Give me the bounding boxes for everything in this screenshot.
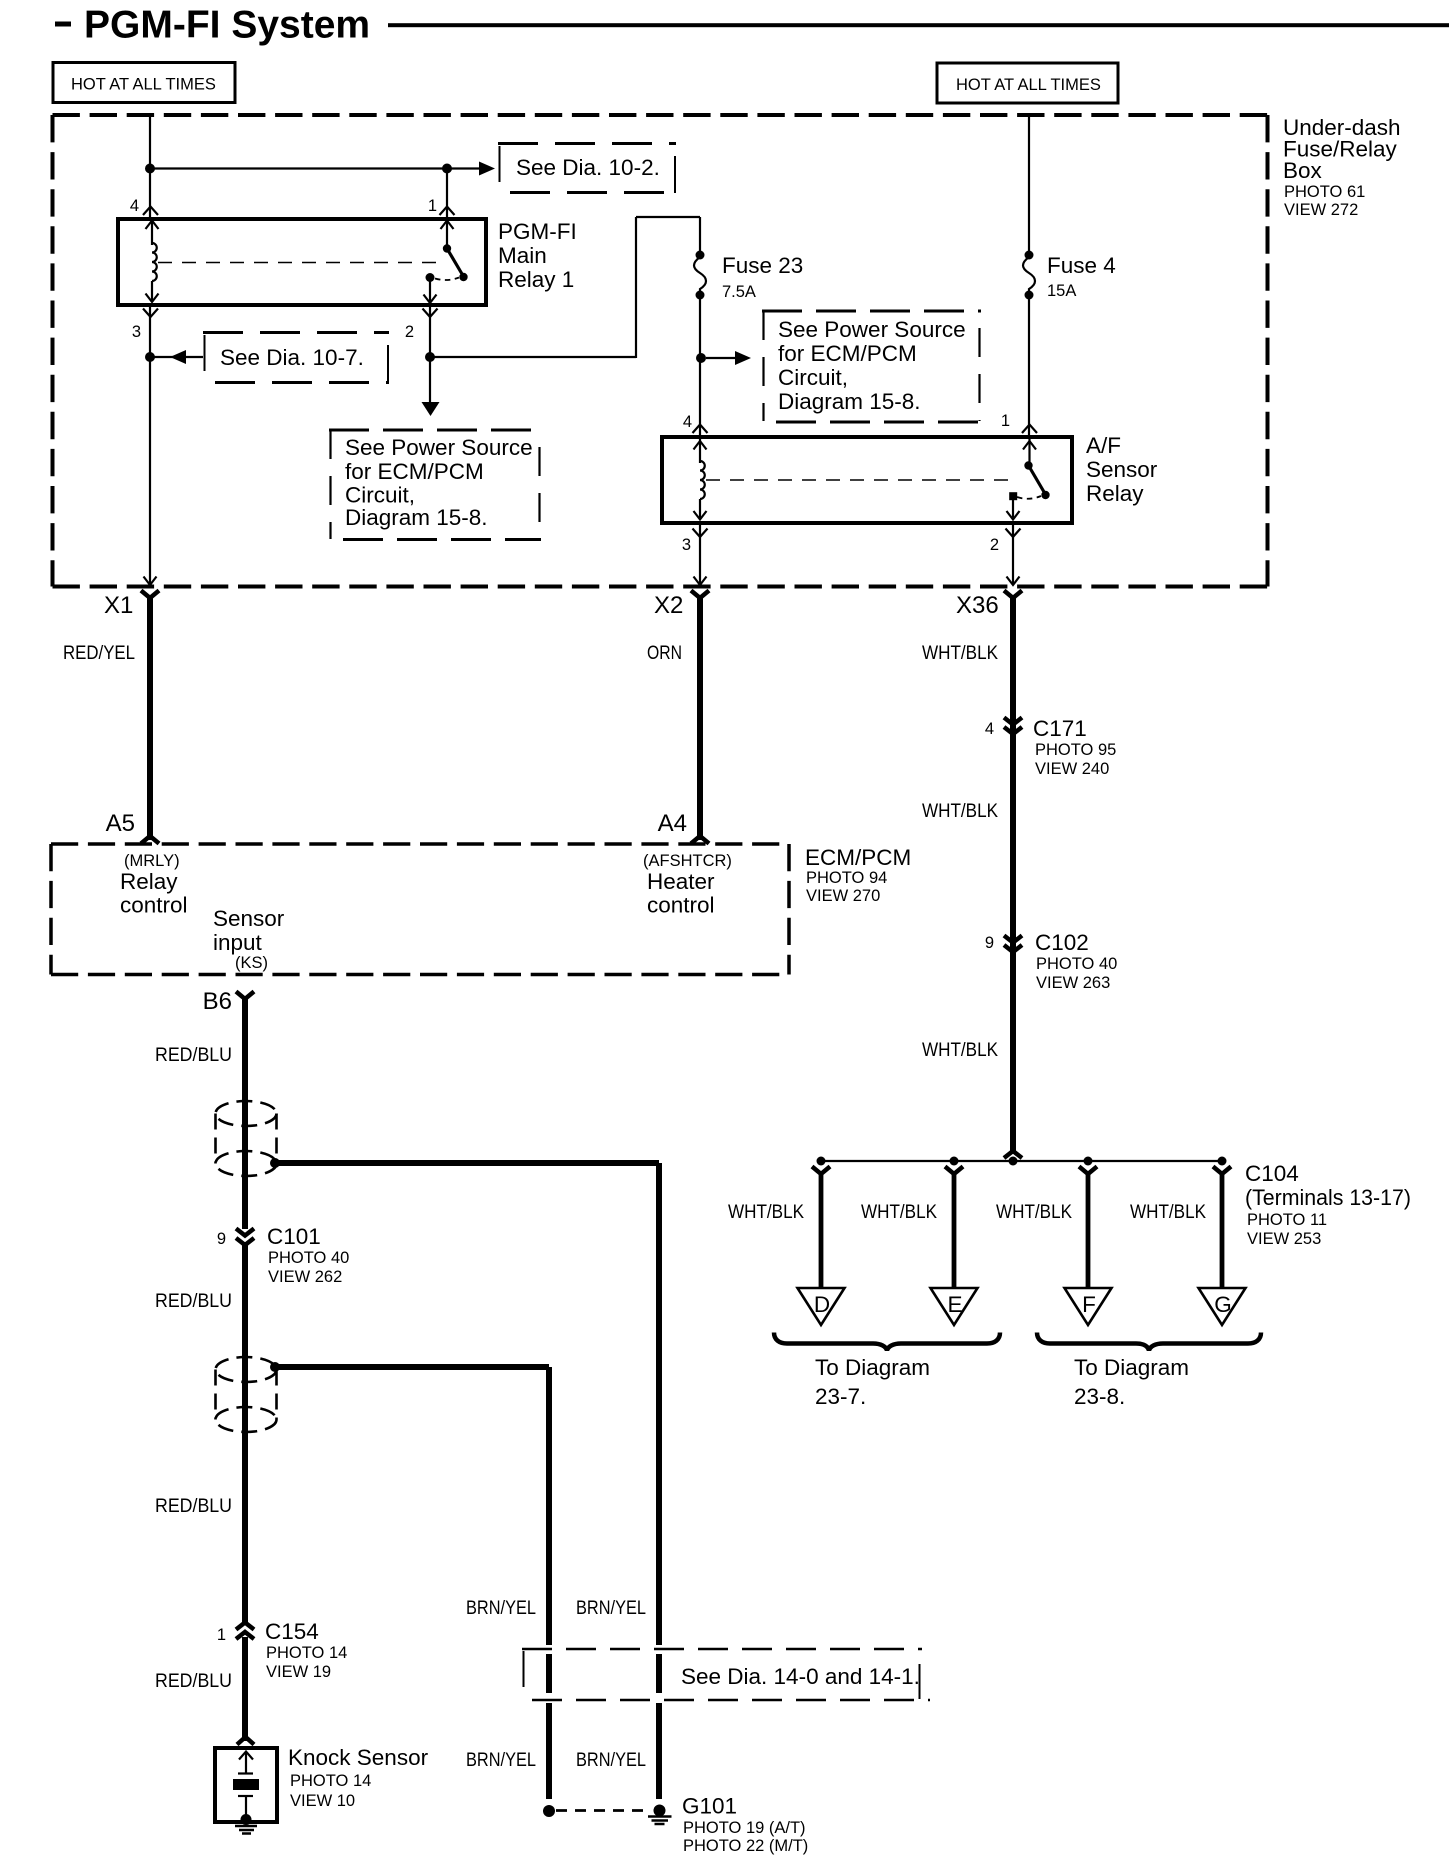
svg-text:C171: C171	[1033, 716, 1087, 741]
svg-text:RED/BLU: RED/BLU	[155, 1045, 232, 1066]
svg-text:(Terminals 13-17): (Terminals 13-17)	[1245, 1185, 1411, 1210]
svg-text:3: 3	[682, 536, 691, 554]
svg-text:VIEW 270: VIEW 270	[806, 887, 880, 905]
svg-text:2: 2	[405, 323, 414, 341]
svg-text:1: 1	[428, 197, 437, 215]
svg-text:PHOTO 94: PHOTO 94	[806, 869, 887, 887]
svg-text:Box: Box	[1283, 158, 1323, 183]
svg-text:HOT AT ALL TIMES: HOT AT ALL TIMES	[956, 76, 1101, 94]
svg-text:Knock Sensor: Knock Sensor	[288, 1745, 429, 1770]
svg-text:WHT/BLK: WHT/BLK	[861, 1202, 937, 1223]
svg-text:VIEW 253: VIEW 253	[1247, 1230, 1321, 1248]
svg-text:G: G	[1214, 1292, 1232, 1317]
svg-text:23-8.: 23-8.	[1074, 1384, 1125, 1409]
svg-text:C154: C154	[265, 1619, 319, 1644]
svg-text:Sensor: Sensor	[1086, 457, 1158, 482]
svg-text:Relay: Relay	[1086, 481, 1144, 506]
svg-text:PHOTO 40: PHOTO 40	[1036, 955, 1117, 973]
svg-text:(AFSHTCR): (AFSHTCR)	[643, 852, 732, 870]
svg-text:A5: A5	[106, 810, 135, 837]
svg-text:To Diagram: To Diagram	[815, 1355, 930, 1380]
svg-text:BRN/YEL: BRN/YEL	[576, 1598, 646, 1619]
svg-text:BRN/YEL: BRN/YEL	[466, 1750, 536, 1771]
svg-text:E: E	[947, 1292, 962, 1317]
svg-text:See Power Source: See Power Source	[345, 435, 533, 460]
svg-text:ORN: ORN	[647, 643, 682, 664]
svg-text:PHOTO 95: PHOTO 95	[1035, 741, 1116, 759]
svg-text:Heater: Heater	[647, 869, 715, 894]
svg-text:control: control	[647, 893, 715, 918]
svg-text:Circuit,: Circuit,	[345, 483, 415, 508]
svg-text:RED/BLU: RED/BLU	[155, 1496, 232, 1517]
svg-text:WHT/BLK: WHT/BLK	[996, 1202, 1072, 1223]
svg-text:BRN/YEL: BRN/YEL	[576, 1750, 646, 1771]
svg-text:WHT/BLK: WHT/BLK	[922, 801, 998, 822]
svg-text:WHT/BLK: WHT/BLK	[728, 1202, 804, 1223]
svg-text:WHT/BLK: WHT/BLK	[922, 643, 998, 664]
svg-text:7.5A: 7.5A	[722, 283, 756, 301]
svg-text:See Dia. 14-0 and 14-1.: See Dia. 14-0 and 14-1.	[681, 1664, 920, 1689]
svg-text:PHOTO 14: PHOTO 14	[266, 1644, 347, 1662]
svg-text:X36: X36	[956, 592, 999, 619]
svg-text:4: 4	[683, 413, 692, 431]
svg-text:See Dia. 10-7.: See Dia. 10-7.	[220, 345, 364, 370]
svg-text:PGM-FI: PGM-FI	[498, 219, 577, 244]
svg-text:input: input	[213, 930, 263, 955]
svg-text:Diagram 15-8.: Diagram 15-8.	[345, 505, 488, 530]
svg-text:Fuse 23: Fuse 23	[722, 253, 803, 278]
svg-text:See Dia. 10-2.: See Dia. 10-2.	[516, 155, 660, 180]
svg-text:Main: Main	[498, 243, 547, 268]
svg-text:2: 2	[990, 536, 999, 554]
svg-text:PHOTO 22 (M/T): PHOTO 22 (M/T)	[683, 1837, 808, 1855]
svg-text:control: control	[120, 893, 188, 918]
svg-text:for ECM/PCM: for ECM/PCM	[778, 341, 917, 366]
svg-text:PHOTO 40: PHOTO 40	[268, 1249, 349, 1267]
svg-text:(KS): (KS)	[235, 954, 268, 972]
svg-text:RED/BLU: RED/BLU	[155, 1671, 232, 1692]
svg-text:9: 9	[217, 1230, 226, 1248]
svg-text:PGM-FI System: PGM-FI System	[84, 4, 370, 47]
svg-text:RED/YEL: RED/YEL	[63, 643, 135, 664]
svg-text:4: 4	[985, 720, 994, 738]
svg-text:Relay: Relay	[120, 869, 178, 894]
svg-text:A/F: A/F	[1086, 433, 1121, 458]
svg-text:BRN/YEL: BRN/YEL	[466, 1598, 536, 1619]
svg-text:VIEW 262: VIEW 262	[268, 1268, 342, 1286]
svg-text:WHT/BLK: WHT/BLK	[1130, 1202, 1206, 1223]
svg-text:for ECM/PCM: for ECM/PCM	[345, 459, 484, 484]
svg-text:1: 1	[1001, 412, 1010, 430]
svg-text:9: 9	[985, 934, 994, 952]
svg-text:4: 4	[130, 197, 139, 215]
svg-text:PHOTO 19 (A/T): PHOTO 19 (A/T)	[683, 1819, 806, 1837]
svg-text:3: 3	[132, 323, 141, 341]
svg-text:HOT AT ALL TIMES: HOT AT ALL TIMES	[71, 76, 216, 94]
svg-text:D: D	[814, 1292, 830, 1317]
svg-text:VIEW 10: VIEW 10	[290, 1792, 355, 1810]
svg-text:Fuse 4: Fuse 4	[1047, 253, 1116, 278]
svg-text:ECM/PCM: ECM/PCM	[805, 845, 911, 870]
svg-text:C104: C104	[1245, 1161, 1299, 1186]
svg-text:See Power Source: See Power Source	[778, 317, 966, 342]
svg-text:X1: X1	[104, 592, 133, 619]
svg-text:Relay 1: Relay 1	[498, 267, 574, 292]
svg-text:VIEW 272: VIEW 272	[1284, 201, 1358, 219]
svg-text:X2: X2	[654, 592, 683, 619]
svg-text:PHOTO 61: PHOTO 61	[1284, 183, 1365, 201]
svg-text:F: F	[1082, 1292, 1096, 1317]
svg-text:Diagram 15-8.: Diagram 15-8.	[778, 389, 921, 414]
svg-text:VIEW 240: VIEW 240	[1035, 760, 1109, 778]
svg-text:B6: B6	[203, 988, 232, 1015]
svg-text:(MRLY): (MRLY)	[124, 852, 180, 870]
svg-text:VIEW 19: VIEW 19	[266, 1663, 331, 1681]
svg-text:C101: C101	[267, 1224, 321, 1249]
svg-text:PHOTO 11: PHOTO 11	[1247, 1211, 1327, 1229]
svg-text:Circuit,: Circuit,	[778, 365, 848, 390]
svg-text:PHOTO 14: PHOTO 14	[290, 1772, 371, 1790]
svg-text:A4: A4	[658, 810, 687, 837]
svg-text:WHT/BLK: WHT/BLK	[922, 1040, 998, 1061]
svg-text:To Diagram: To Diagram	[1074, 1355, 1189, 1380]
svg-text:C102: C102	[1035, 930, 1089, 955]
svg-text:1: 1	[217, 1626, 226, 1644]
svg-text:Sensor: Sensor	[213, 906, 285, 931]
svg-text:15A: 15A	[1047, 282, 1076, 300]
svg-text:VIEW 263: VIEW 263	[1036, 974, 1110, 992]
svg-text:G101: G101	[682, 1794, 737, 1819]
svg-text:23-7.: 23-7.	[815, 1384, 866, 1409]
svg-text:RED/BLU: RED/BLU	[155, 1291, 232, 1312]
